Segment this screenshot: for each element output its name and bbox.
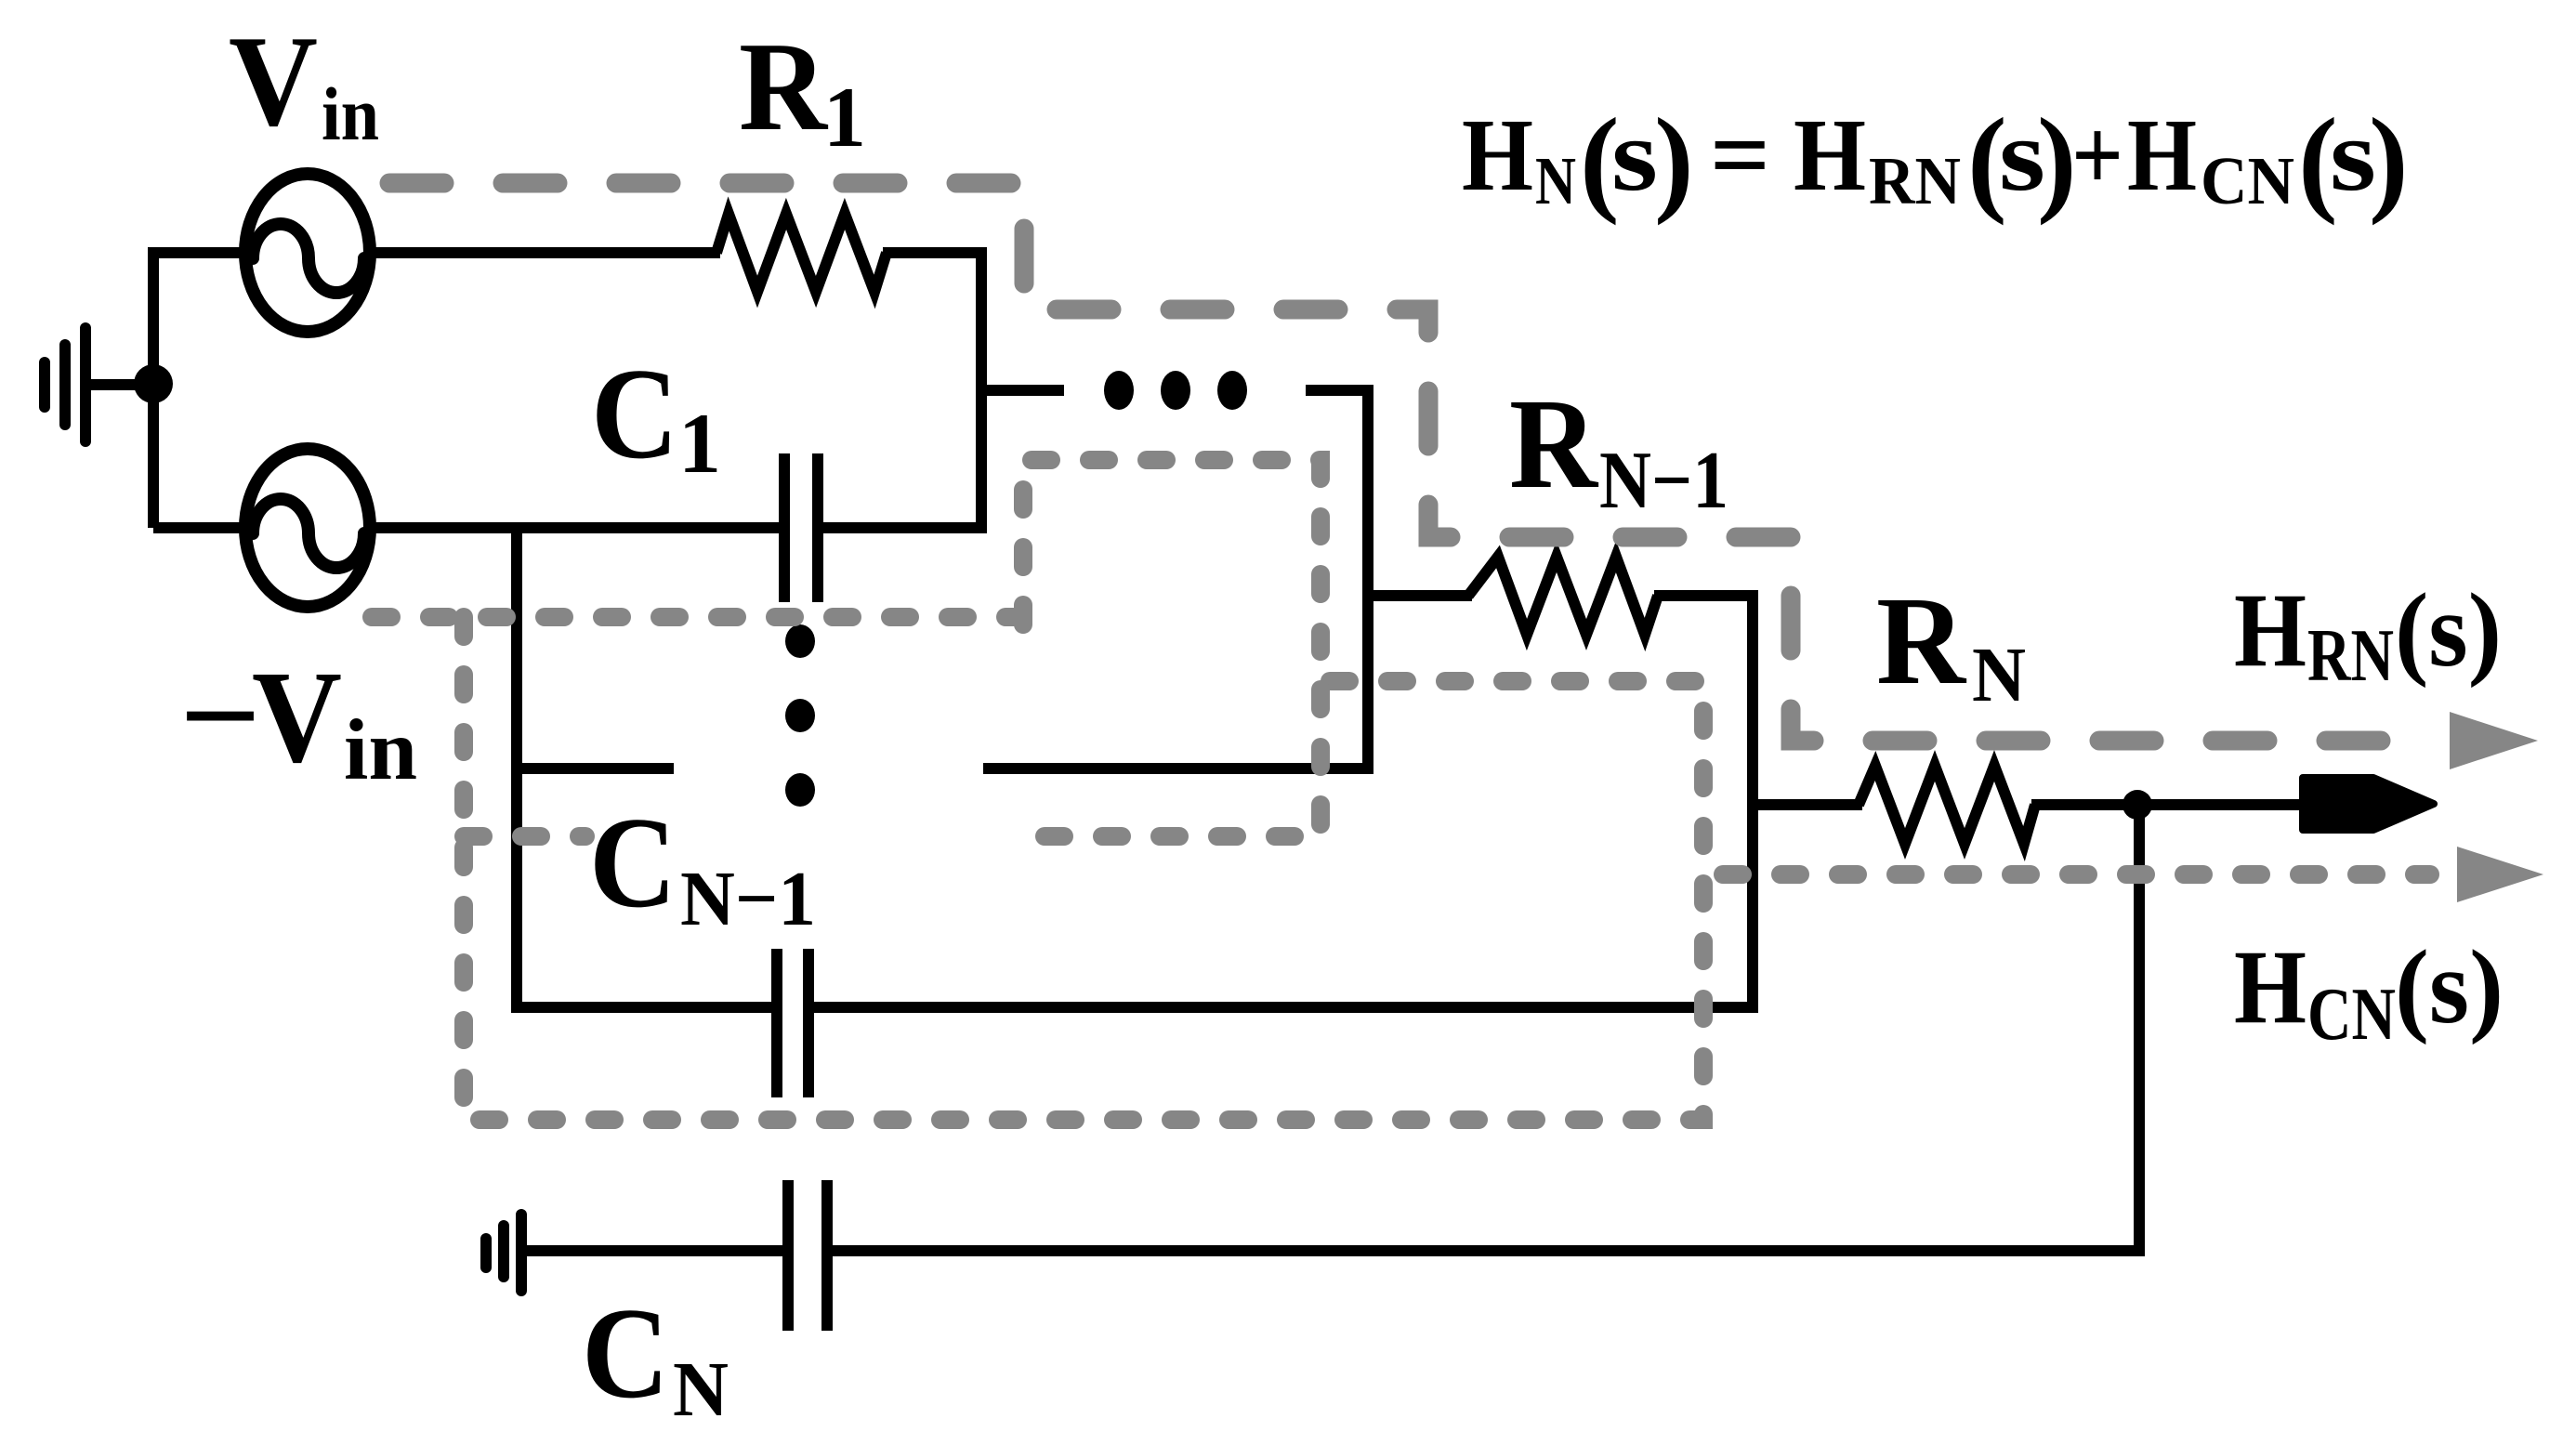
svg-text:H: H [2234, 572, 2307, 689]
output arrow (black) [2303, 778, 2434, 830]
svg-text:R: R [739, 16, 829, 157]
wire (row2 right segment) [983, 763, 1373, 774]
svg-text:+: + [2071, 99, 2123, 213]
wire (left input rail vertical) [148, 253, 159, 528]
HRN path (long-dash gray, Vin through resistors) [389, 183, 2437, 741]
svg-text:H: H [2234, 929, 2307, 1045]
capacitor CN-1 [777, 949, 808, 1097]
wire (CN bottom row) [526, 1245, 782, 1256]
svg-text:1: 1 [678, 396, 721, 491]
svg-text:N: N [1972, 632, 2026, 718]
HCN path top edge (short-dash gray y=664) [372, 608, 1023, 626]
label RN-1 [1509, 373, 1728, 526]
wire (cell1 right vertical) [976, 247, 987, 528]
svg-text:N: N [1535, 143, 1576, 218]
svg-text:N−1: N−1 [1599, 436, 1728, 526]
svg-text:H: H [1794, 99, 1866, 213]
wire (RN-1 input stub) [1362, 590, 1472, 601]
svg-text:V: V [252, 643, 342, 790]
svg-text:CN: CN [2307, 974, 2396, 1056]
svg-text:s: s [1611, 99, 1658, 213]
node (output junction dot) [2123, 790, 2152, 820]
svg-text:H: H [2127, 99, 2197, 213]
label CN-1 [589, 791, 816, 942]
svg-text:R: R [1876, 571, 1967, 711]
formula HN(s) = HRN(s)+HCN(s) [1462, 94, 2409, 226]
wire (output node down rail x=2302) [2134, 805, 2145, 1256]
capacitor C1 [784, 453, 818, 602]
svg-text:N: N [673, 1346, 729, 1433]
wire (continuation to chain corner, row y=421) [1306, 390, 1368, 768]
svg-text:C: C [589, 791, 677, 935]
source -Vin (AC voltage source bottom, inverted input) [245, 449, 370, 607]
ground (left input ground) [45, 328, 141, 441]
label C1 [591, 342, 721, 491]
svg-text:CN: CN [2201, 143, 2294, 218]
svg-text:(s): (s) [2395, 572, 2502, 689]
wire (row2 left stub) [517, 763, 674, 774]
wire (bottom row left segment to -Vin source) [153, 522, 245, 533]
label R1 [739, 16, 866, 164]
svg-text:RN: RN [2307, 615, 2394, 697]
wire (RN input stub) [1753, 799, 1862, 810]
wire (CN to output rail) [833, 1245, 2145, 1256]
svg-text:in: in [344, 703, 417, 798]
svg-text:RN: RN [1869, 143, 1961, 218]
svg-text:V: V [229, 9, 318, 153]
svg-text:=: = [1710, 99, 1770, 213]
wire (Vin to R1) [370, 247, 720, 258]
svg-text:): ) [2369, 94, 2409, 226]
source Vin (AC voltage source top) [245, 174, 370, 332]
HCN output line (short-dash gray to arrow) [1723, 865, 2430, 884]
wire (cell1 output stub, row y=421) [981, 385, 1064, 396]
wire (CN-1 row left segment) [511, 1002, 771, 1013]
svg-text:in: in [322, 72, 379, 156]
HCN inner stub (short-dash gray y=900) [464, 827, 585, 846]
svg-text:C: C [591, 342, 678, 486]
resistor R1 [716, 214, 887, 292]
wire (R1 to corner) [883, 247, 987, 258]
HRN arrow head [2450, 712, 2538, 769]
label CN [582, 1281, 729, 1433]
node (ellipsis dots vertical, continuation under C1) [785, 624, 815, 807]
svg-text:C: C [582, 1281, 669, 1425]
wire (C1 to cell1 right vertical) [823, 522, 987, 533]
svg-text:H: H [1462, 99, 1533, 213]
svg-text:N−1: N−1 [680, 856, 816, 942]
svg-text:): ) [1654, 94, 1694, 226]
label HRN(s) [2234, 572, 2502, 697]
HCN path (short-dash gray loop: left edge, bottom, right, return) [464, 617, 1703, 1120]
svg-text:−: − [179, 644, 261, 788]
svg-text:R: R [1509, 373, 1599, 516]
wire (cellN-1 output rail vertical x=1886) [1747, 590, 1758, 1013]
label HCN(s) [2234, 929, 2504, 1056]
phantom cell box (short-dash gray middle box) [1016, 460, 1321, 836]
wire (RN to output node) [2031, 799, 2305, 810]
label RN [1876, 571, 2026, 718]
HCN arrow head [2457, 847, 2543, 902]
wire (RN-1 to output rail) [1654, 590, 1758, 601]
resistor RN [1859, 766, 2035, 844]
label -Vin [179, 643, 417, 798]
node A (input node junction dot) [134, 364, 173, 403]
svg-text:(s): (s) [2395, 929, 2504, 1045]
wire (-Vin to C1) [370, 522, 779, 533]
capacitor CN [788, 1180, 827, 1331]
wire (top row left segment to Vin source) [148, 247, 245, 258]
node (ellipsis dots horizontal, continuation) [1104, 371, 1247, 410]
resistor RN-1 [1468, 557, 1658, 635]
svg-text:1: 1 [823, 70, 866, 164]
ground (CN ground) [486, 1215, 521, 1291]
wire (-Vin rail vertical x=556) [511, 522, 522, 1013]
label Vin [229, 9, 379, 156]
wire (CN-1 to output rail) [814, 1002, 1758, 1013]
